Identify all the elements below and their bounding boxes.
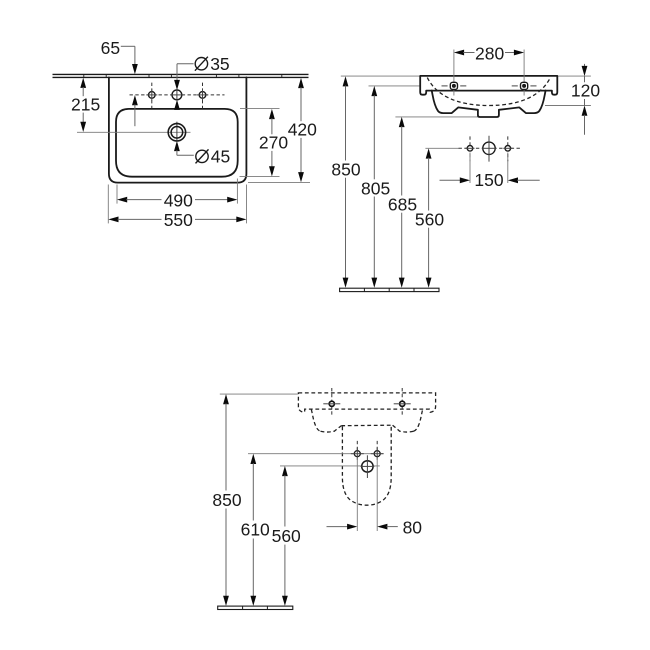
wall line band: [53, 74, 309, 77]
rear fixing hole left: [323, 388, 340, 417]
fixing hole right (front): [512, 50, 537, 96]
svg-text:65: 65: [101, 38, 120, 58]
pedestal hole right: [371, 441, 384, 460]
washbasin outer rim (plan): [109, 77, 247, 182]
basin interior dashed curve: [427, 78, 550, 106]
pedestal hole left: [351, 441, 364, 460]
tap hole centerline horizontal dashed: [130, 94, 225, 96]
svg-text:685: 685: [388, 195, 417, 215]
wall fixing detail row: [425, 136, 520, 162]
dimension 270: [240, 108, 289, 176]
svg-text:850: 850: [331, 160, 360, 180]
svg-text:560: 560: [415, 210, 444, 230]
svg-text:270: 270: [259, 133, 288, 153]
washbasin front rim outline: [420, 76, 557, 95]
dimension 610: [241, 454, 270, 606]
basin bowl inner rim (plan): [116, 109, 238, 177]
detail center circle: [483, 142, 495, 154]
dimension 805: [361, 86, 390, 288]
pedestal reference line (560): [280, 465, 380, 467]
washbasin front bowl outline: [432, 91, 546, 117]
tap hole right: [199, 92, 206, 99]
svg-text:805: 805: [361, 178, 390, 198]
floor line (rear view): [218, 606, 293, 609]
fixing holes reference line (805): [369, 85, 421, 87]
outlet reference line (685): [395, 116, 479, 118]
dimension 550: [108, 185, 246, 230]
tap hole left: [149, 92, 156, 99]
drain outer circle: [168, 124, 185, 141]
basin underside reference line (120): [545, 105, 591, 107]
detail hole right: [505, 146, 511, 152]
drain centerline horizontal (215 reference): [77, 131, 191, 133]
svg-text:215: 215: [71, 94, 100, 114]
dimension 65 leader: [101, 38, 138, 126]
dimension 560 (front): [415, 148, 444, 287]
dimension 420: [248, 78, 317, 183]
rear underside dashed contour: [311, 409, 320, 431]
wall level reference line: [341, 75, 421, 77]
dimension 850 (front): [331, 76, 360, 288]
dimension 560 (rear): [272, 466, 301, 606]
rear rim dashed outline: [298, 393, 435, 412]
dimension Ø35 leader: [174, 54, 230, 110]
svg-text:150: 150: [474, 170, 503, 190]
dimension Ø45 leader: [174, 141, 230, 167]
svg-text:280: 280: [475, 43, 504, 63]
dimension 280: [454, 43, 524, 63]
tap hole center Ø35: [172, 90, 182, 100]
svg-text:420: 420: [288, 120, 317, 140]
pedestal reference line (610): [248, 453, 383, 455]
floor line (front view): [340, 288, 439, 291]
dimension 850 (rear): [212, 394, 241, 606]
svg-text:560: 560: [272, 526, 301, 546]
drain centerline vertical: [176, 122, 178, 142]
detail hole left: [467, 146, 473, 152]
dimension 490: [117, 179, 237, 211]
svg-text:550: 550: [164, 210, 193, 230]
svg-text:120: 120: [571, 81, 600, 101]
svg-text:490: 490: [164, 190, 193, 210]
tap hole centerline vertical dashed right: [202, 83, 204, 109]
drain inner circle Ø45: [171, 127, 183, 139]
svg-text:45: 45: [211, 147, 230, 167]
fixing hole left (front): [442, 50, 467, 96]
svg-text:35: 35: [210, 54, 229, 74]
dimension 215: [71, 78, 100, 132]
svg-text:850: 850: [212, 490, 241, 510]
dimension 80: [327, 458, 423, 538]
top reference line (850): [220, 393, 298, 395]
tap hole centerline vertical dashed left: [151, 83, 153, 109]
pedestal drain circle: [361, 455, 375, 478]
dimension 150: [440, 153, 540, 191]
svg-text:80: 80: [403, 517, 423, 537]
svg-text:610: 610: [241, 520, 270, 540]
dimension 120: [571, 64, 600, 135]
semi-pedestal dashed outline: [342, 427, 391, 506]
rear fixing hole right: [394, 388, 411, 417]
dimension 685: [388, 117, 417, 288]
